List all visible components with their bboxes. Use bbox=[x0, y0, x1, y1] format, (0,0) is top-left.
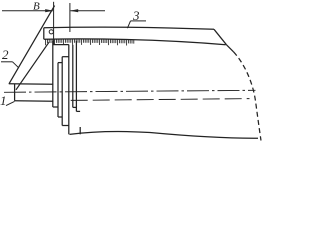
shaft centerline (dash-dot) bbox=[4, 90, 256, 92]
ruler scale line / cylinder top edge bbox=[44, 39, 226, 45]
slider frame left edge bbox=[52, 41, 54, 107]
ruler mounting hole bbox=[49, 30, 53, 34]
inner plate 1 foot bbox=[58, 116, 62, 118]
label 1 leader bbox=[6, 101, 15, 105]
body right chamfer bbox=[214, 29, 227, 45]
shaft top edge (item 1) bbox=[9, 83, 53, 86]
slider frame foot bbox=[53, 106, 58, 108]
cylinder end-face curve (dashed hidden part) bbox=[234, 52, 262, 141]
cylinder bottom corner vertical bbox=[79, 127, 81, 134]
inner plate 2 foot bbox=[62, 125, 69, 127]
svg-text:2: 2 bbox=[2, 47, 9, 62]
hub plate 2 foot bbox=[76, 110, 80, 112]
label 2 underline bbox=[1, 61, 13, 63]
inner plate 1 edge bbox=[57, 63, 59, 117]
knife edge A (pointer diagonal, item 2) bbox=[9, 6, 55, 84]
knife edge B (second diagonal) bbox=[16, 42, 49, 90]
label 2 leader bbox=[13, 62, 19, 68]
slider frame top edge bbox=[53, 44, 69, 46]
ruler body top edge (item 3) bbox=[44, 27, 214, 29]
hub plate 1 foot bbox=[73, 106, 77, 108]
extension line right bbox=[69, 3, 71, 32]
svg-text:1: 1 bbox=[0, 93, 7, 108]
inner plate 2 edge bbox=[61, 57, 63, 126]
extension line left bbox=[53, 2, 55, 44]
inner plate 1 top step bbox=[58, 62, 62, 64]
label 3 leader bbox=[127, 21, 130, 28]
hidden bore edge (dashed) bbox=[71, 99, 250, 101]
dimension line left segment with arrow bbox=[2, 10, 53, 12]
ruler graduation ticks bbox=[46, 39, 134, 46]
hub plate 1 edge bbox=[72, 45, 74, 108]
inner plate 2 top step bbox=[62, 56, 69, 58]
shaft bottom edge bbox=[15, 100, 54, 102]
cylinder bottom edge bbox=[70, 132, 259, 139]
hub plate 2 edge bbox=[75, 41, 77, 112]
cylinder end-face curve (solid start) bbox=[227, 45, 234, 52]
shaft left face bbox=[14, 84, 16, 101]
dimension line right segment with arrow bbox=[71, 10, 106, 12]
ruler left end cap bbox=[43, 28, 45, 39]
label 3 underline bbox=[131, 20, 147, 22]
slider frame right edge bbox=[68, 45, 70, 135]
